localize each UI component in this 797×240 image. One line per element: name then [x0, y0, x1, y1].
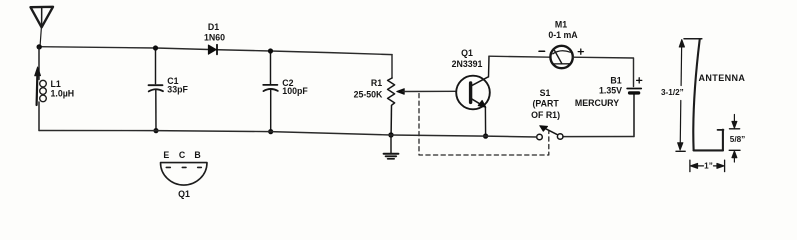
tuning arrow of L1 — [35, 67, 41, 105]
node C1 top — [153, 45, 158, 50]
svg-text:MERCURY: MERCURY — [575, 98, 619, 108]
plus polarity of M1 — [578, 49, 583, 54]
transistor package bottom view (E C B) — [161, 163, 208, 185]
inductor L1 — [39, 47, 46, 131]
svg-text:Q1: Q1 — [178, 189, 190, 199]
svg-text:L1: L1 — [51, 79, 61, 89]
mechanical link dashed wire — [419, 94, 549, 156]
emitter arrow of Q1 — [478, 100, 486, 107]
svg-text:33pF: 33pF — [167, 85, 188, 95]
svg-text:B: B — [194, 150, 200, 160]
switch S1 — [537, 128, 563, 140]
svg-text:ANTENNA: ANTENNA — [699, 73, 746, 83]
svg-text:100pF: 100pF — [282, 86, 308, 96]
svg-text:0-1 mA: 0-1 mA — [548, 30, 578, 40]
dimension 1 inch — [690, 160, 725, 171]
antenna symbol — [31, 7, 54, 47]
wire bottom rail — [39, 131, 537, 138]
minus polarity of M1 — [539, 50, 545, 52]
wire collector to meter — [489, 56, 551, 57]
battery B1 — [627, 89, 641, 137]
svg-text:E: E — [163, 150, 169, 160]
capacitor C1 — [149, 48, 164, 131]
svg-text:C: C — [179, 150, 186, 160]
svg-text:B1: B1 — [610, 75, 621, 85]
plus polarity of B1 — [637, 78, 642, 83]
node C2 bottom — [268, 129, 273, 134]
wire R1 wiper to Q1 base — [403, 90, 456, 92]
wire top rail — [39, 47, 392, 55]
node C1 bottom — [153, 128, 158, 133]
svg-text:2N3391: 2N3391 — [452, 59, 483, 69]
resistor R1 (potentiometer) — [388, 78, 395, 135]
wiper arrow of R1 — [397, 89, 404, 95]
svg-text:(PART: (PART — [532, 99, 559, 109]
svg-text:1.35V: 1.35V — [599, 86, 622, 96]
node top-left junction — [37, 44, 42, 49]
svg-text:25-50K: 25-50K — [354, 90, 383, 100]
svg-text:S1: S1 — [540, 88, 551, 98]
dimension 5/8 inch — [729, 115, 740, 163]
svg-text:1N60: 1N60 — [204, 32, 225, 42]
meter M1 — [550, 46, 572, 68]
wire battery to switch — [563, 136, 634, 138]
diode D1 — [208, 45, 217, 55]
svg-text:D1: D1 — [208, 22, 219, 32]
antenna rod drawing — [684, 39, 724, 151]
node R1 bottom — [388, 132, 393, 137]
svg-text:5/8”: 5/8” — [730, 135, 745, 144]
svg-text:R1: R1 — [371, 78, 382, 88]
svg-text:1”: 1” — [704, 161, 713, 170]
svg-text:OF R1): OF R1) — [531, 110, 560, 120]
svg-text:1.0µH: 1.0µH — [51, 89, 75, 99]
blade arrow of S1 — [540, 126, 548, 132]
svg-text:Q1: Q1 — [461, 48, 473, 58]
svg-text:3-1/2”: 3-1/2” — [661, 88, 684, 97]
transistor Q1 — [456, 56, 490, 136]
node emitter junction — [483, 133, 488, 138]
svg-text:M1: M1 — [555, 20, 567, 30]
wire rail corner down to R1 — [391, 55, 393, 78]
dimension 3-1/2 inch — [676, 40, 685, 152]
node C2 top — [268, 48, 273, 53]
wire meter to battery — [573, 57, 634, 86]
ground — [384, 135, 399, 159]
capacitor C2 — [263, 51, 278, 132]
